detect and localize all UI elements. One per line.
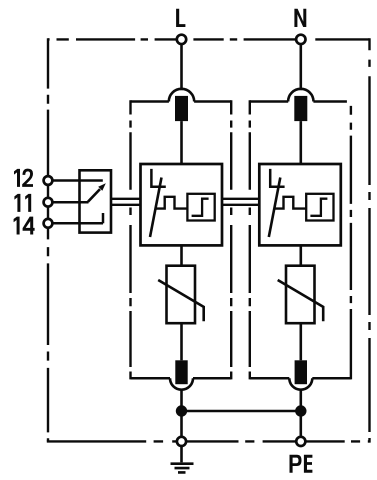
module 1 outline bottom edge (131, 377, 232, 380)
terminal 12 circle (44, 176, 53, 185)
changeover contact blade (88, 189, 100, 202)
module 2 outline left dashed border (249, 100, 251, 379)
thermal disconnector contact bar top module 2 (294, 96, 307, 121)
trigger step line module 1 (155, 197, 187, 209)
enclosure border left (dash-dot) (47, 38, 49, 441)
label L (176, 9, 185, 27)
module 1 outline left dashed border (129, 100, 131, 379)
wire L terminal to module 1 (180, 44, 183, 90)
NO contact upturn terminal 14 (102, 213, 105, 223)
remote signal wire terminal 14 (53, 222, 103, 225)
monitoring/disconnect box module 2 (259, 164, 341, 245)
mechanical coupling module 1 to module 2 (222, 199, 259, 205)
terminal L circle (177, 35, 186, 44)
terminal 14 circle (44, 219, 53, 228)
junction node module 2 / PE bus (295, 405, 306, 416)
wire disconnector to monitoring box module 2 (299, 121, 302, 164)
module 1 outline top edge (131, 100, 232, 103)
module 2 outline right dashed border (350, 106, 352, 380)
label N (294, 9, 306, 27)
PE terminal circle (296, 437, 305, 446)
step symbol inside square module 2 (310, 199, 327, 216)
remote signal wire terminal 12 (53, 179, 103, 182)
monitoring/disconnect box module 1 (141, 164, 223, 245)
label 11 (14, 194, 20, 212)
enclosure border bottom (dash-dot) (47, 440, 370, 442)
wire N terminal to module 2 (299, 44, 302, 90)
module 2 outline top edge (250, 100, 347, 103)
module 2 outline bottom edge (250, 377, 351, 380)
switch contact corner module 2 (270, 169, 284, 187)
label 14 (14, 217, 20, 235)
changeover contact box (80, 170, 112, 232)
thermal disconnector arc bottom module 1 (170, 378, 193, 390)
junction node module 1 / PE bus (176, 405, 187, 416)
thermal disconnector arc top module 2 (288, 89, 313, 102)
terminal N circle (296, 35, 305, 44)
changeover contact arrowhead (98, 183, 106, 191)
status indicator square module 2 (306, 194, 333, 221)
step symbol inside square module 1 (192, 199, 209, 216)
label PE (290, 455, 302, 473)
module 1 outline right dashed border (230, 100, 232, 379)
varistor diagonal module 1 (158, 280, 204, 321)
enclosure border top (dash-dot) (48, 38, 370, 40)
ground terminal circle (177, 437, 186, 446)
varistor body module 1 (167, 266, 196, 324)
status indicator square module 1 (187, 194, 214, 221)
thermal disconnector contact bar bottom module 2 (295, 360, 307, 384)
wire varistor to bottom disconnector module 2 (299, 323, 302, 360)
PE bus wire between junctions (182, 410, 301, 413)
switch blade module 2 (269, 178, 281, 238)
wire monitoring box to varistor module 1 (180, 245, 183, 265)
wire monitoring box to varistor module 2 (299, 245, 302, 265)
mechanical coupling contact box to module 1 (111, 199, 141, 205)
wire arc to junction module 1 (180, 390, 183, 411)
thermal disconnector arc top module 1 (169, 89, 194, 102)
wire disconnector to monitoring box module 1 (180, 121, 183, 164)
remote signal wire terminal 11 (53, 201, 89, 204)
label 12 (14, 169, 20, 187)
trigger step line module 2 (274, 197, 307, 209)
thermal disconnector contact bar bottom module 1 (175, 360, 187, 384)
thermal disconnector arc bottom module 2 (289, 378, 312, 390)
ground symbol (171, 447, 194, 473)
varistor body module 2 (286, 266, 315, 324)
switch contact corner module 1 (151, 169, 165, 187)
wire junction 1 to ground terminal (180, 411, 183, 437)
wire varistor to bottom disconnector module 1 (180, 323, 183, 360)
wire junction 2 to PE terminal (299, 411, 302, 437)
thermal disconnector contact bar top module 1 (175, 96, 188, 121)
varistor diagonal module 2 (278, 280, 324, 321)
terminal 11 circle (44, 198, 53, 207)
switch blade module 1 (150, 178, 162, 238)
enclosure border right (dash-dot) (368, 38, 370, 442)
wire arc to junction module 2 (299, 390, 302, 411)
